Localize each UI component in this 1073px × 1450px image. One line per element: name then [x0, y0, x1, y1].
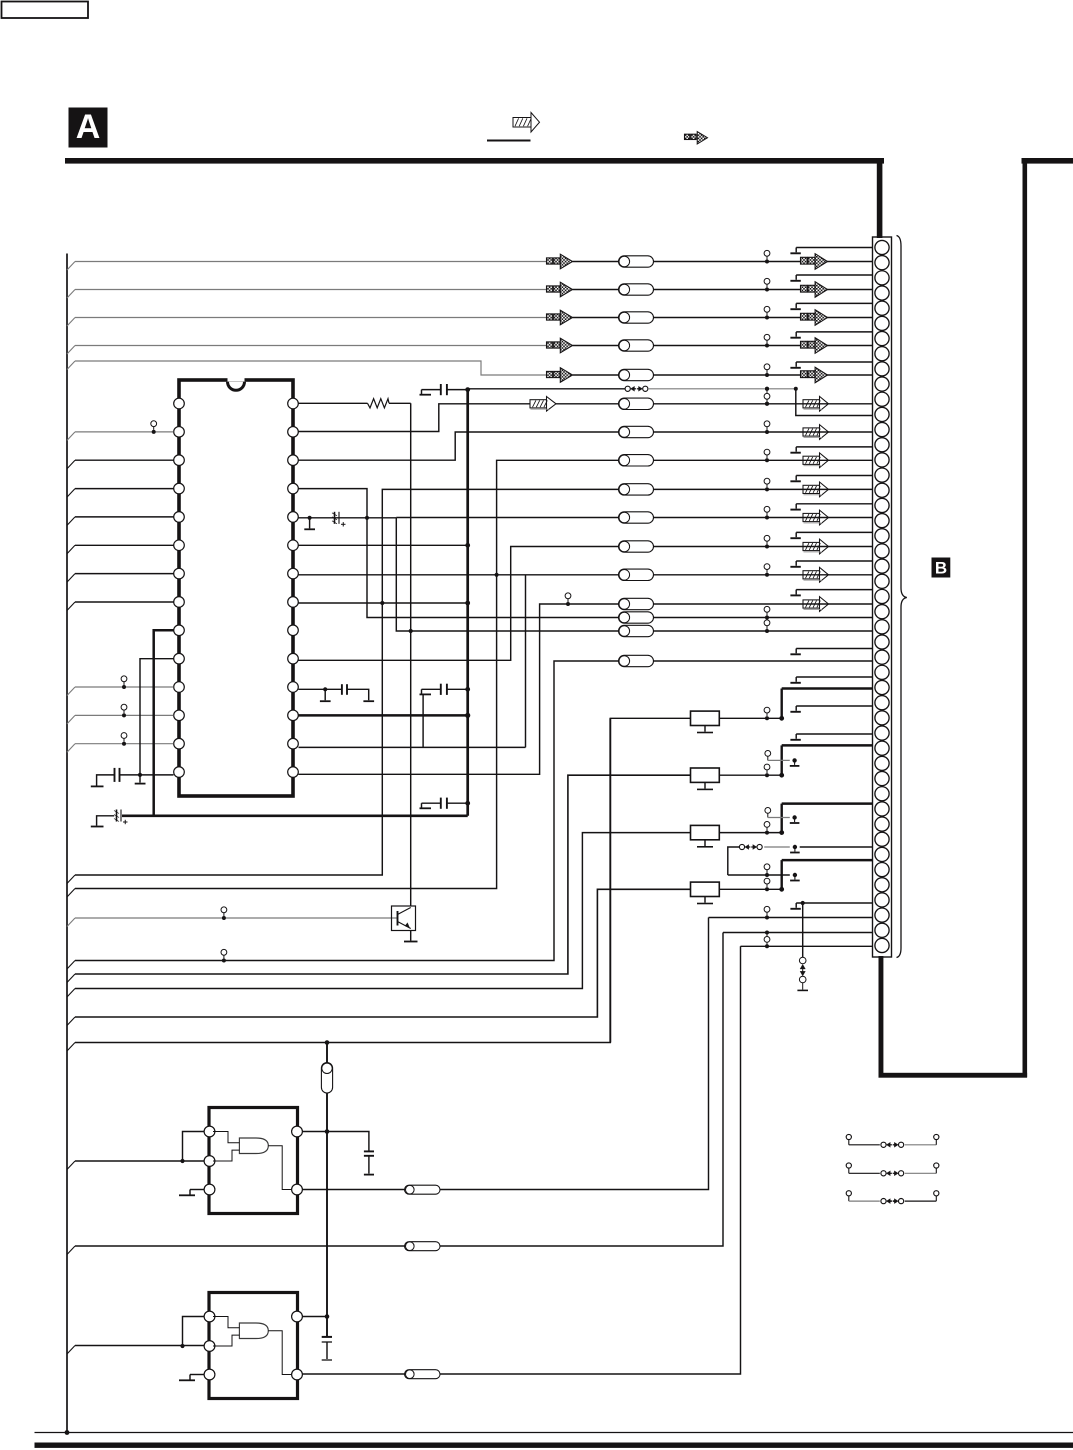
wire bus row 1345.5 to IC3 [75, 1345, 204, 1347]
connector pin 21 [875, 544, 889, 558]
bus entry stub [67, 1017, 75, 1026]
connector pin 37 [875, 787, 889, 801]
inline connector pair [121, 704, 127, 710]
wire bead to connector [654, 289, 873, 291]
IC1 left pin 11 [174, 682, 185, 693]
wire bus to IC1 pin6 [75, 544, 174, 546]
IC1 left pin 13 [174, 738, 185, 749]
hatched arrow (to connector) [803, 542, 820, 550]
IC1 left pin 10 [174, 653, 185, 664]
bus entry stub [67, 989, 75, 998]
thick section border: top horizontal A [65, 158, 884, 164]
vertical supply with bead to lower ICs [326, 1043, 328, 1063]
bus entry stub [67, 602, 75, 611]
ferrite bead [619, 484, 654, 495]
connector pin 4 [875, 286, 889, 300]
IC3 left pin 3 [204, 1369, 215, 1380]
ferrite bead [619, 625, 654, 636]
ferrite bead [619, 512, 654, 523]
wire IC1 pin25 over-down to bead row 617.5 [299, 489, 619, 618]
wire riser V511 bead row 546 from pin19 row [299, 547, 619, 661]
connector pin 42 [875, 862, 889, 876]
bus entry stub [67, 744, 75, 753]
connector pin 46 [875, 923, 889, 937]
connector pin 40 [875, 832, 889, 846]
wire resistor to vertical rail V411 [389, 402, 411, 404]
connector pin 1 [875, 240, 889, 254]
IC1 right pin 18 [288, 682, 299, 693]
wire IC3 output pin to supply junction [303, 1316, 328, 1318]
bus entry stub [67, 262, 75, 271]
resistor R on IC1 pin28 row [299, 402, 368, 404]
bus entry stub [67, 918, 75, 927]
checkered arrow (to connector) [801, 371, 808, 378]
checkered arrow (incoming) [547, 286, 553, 292]
wire IC1 pin9 to bold rail down-left [154, 630, 174, 816]
decoupling capacitor mid rail [420, 693, 432, 695]
connector pin 35 [875, 756, 889, 770]
bus entry stub [67, 460, 75, 469]
bus entry stub [67, 361, 75, 370]
bus entry stub [67, 318, 75, 327]
inline connector pair [764, 878, 770, 884]
wire bead to riser 740 [440, 946, 741, 1374]
wire bus to IC1 pin3 [75, 459, 174, 461]
wire pin24 net down to bead row 631 [396, 518, 618, 631]
wire riser from bus row [75, 775, 691, 974]
bus entry stub [67, 974, 75, 983]
IC1 right pin 26 [288, 455, 299, 466]
ground of electrolytic [97, 816, 115, 826]
connector pin 19 [875, 514, 889, 528]
connector pin 24 [875, 589, 889, 603]
filter network box [691, 882, 720, 896]
junction with bold feed [779, 887, 784, 892]
row 388.5 wire to junctions [648, 388, 796, 390]
IC3 feedback loop pin1-pin2 [183, 1317, 205, 1347]
IC1 left pin 14 [174, 767, 185, 778]
IC1 right pin 28 [288, 398, 299, 409]
connector pin 14 [875, 438, 889, 452]
connector pin 17 [875, 483, 889, 497]
IC1 left pin 12 [174, 710, 185, 721]
connector pin 9 [875, 362, 889, 376]
ground return of pin14 capacitor [97, 775, 115, 786]
IC1 left pin 1 [174, 398, 185, 409]
connector pin 18 [875, 498, 889, 512]
ferrite bead [619, 612, 654, 623]
connector pin 23 [875, 574, 889, 588]
stub land wire row 677 [796, 676, 872, 678]
connector pin 27 [875, 635, 889, 649]
section label A (black square) [69, 108, 108, 148]
IC3 internal element [239, 1323, 268, 1339]
connector pin 33 [875, 726, 889, 740]
wire bead 661 to connector [654, 660, 873, 662]
bus entry stub [67, 1346, 75, 1355]
inline connector pair on pin2 wire [151, 421, 157, 427]
connector pin 45 [875, 908, 889, 922]
inline connector pair [121, 676, 127, 682]
wire IC3 out row 1374 to small bead [303, 1373, 405, 1375]
wire IC1 pin21 row to bold rail [299, 602, 468, 604]
connector pin 3 [875, 271, 889, 285]
transistor Q1 box [392, 906, 416, 931]
test point chain above filter C [765, 808, 771, 814]
bus row 1246 with small bead [75, 1245, 405, 1247]
ferrite bead [619, 256, 654, 267]
bus entry stub [67, 517, 75, 526]
wire bead to connector [654, 261, 873, 263]
wire IC1 pin10 down to pin14 row [140, 659, 174, 775]
checkered arrow (to connector) [801, 313, 808, 320]
filter network box [691, 711, 720, 725]
bus entry stub [67, 489, 75, 498]
junction at IC2 supply pin [325, 1129, 330, 1134]
connector pin 39 [875, 817, 889, 831]
IC1 left pin 6 [174, 540, 185, 551]
polarised capacitor on pin24 row [308, 516, 312, 520]
bus entry stub [67, 290, 75, 299]
connector pin 12 [875, 407, 889, 421]
link pin16 row up to mid capacitor land [422, 694, 424, 747]
bus entry stub [67, 574, 75, 583]
wire IC2 output pin to supply junction [303, 1131, 328, 1133]
hatched arrow (to connector) [803, 513, 820, 521]
wire riser from bus row [75, 718, 691, 1042]
connector pin 29 [875, 665, 889, 679]
bus entry stub [67, 687, 75, 696]
wire bead to connector [654, 431, 873, 433]
wire bead to connector [654, 617, 873, 619]
wire bead to connector [654, 603, 873, 605]
stub land wire row 706 [796, 705, 872, 707]
stub land wire row 734 [796, 733, 872, 735]
wire arrow to bead [573, 289, 619, 291]
decoupling capacitor at top of rail [420, 394, 432, 396]
inline connector pair [764, 334, 770, 340]
small ferrite bead row 1189.5 [405, 1185, 441, 1194]
inline connector pair [764, 421, 770, 427]
bold decoupling rail V468 [466, 390, 469, 816]
checkered arrow (incoming) [547, 371, 553, 377]
page frame: empty title box top-left [2, 2, 89, 19]
wire filter box to connector pair [719, 832, 781, 834]
stub land wire pin5 [796, 302, 872, 304]
stub land wire row 532.4 [796, 531, 872, 533]
IC1 right pin 21 [288, 597, 299, 608]
ground stub of filter box [704, 726, 706, 732]
wire bus to IC1 pin7 [75, 573, 174, 575]
stub land wire pin3 [796, 274, 872, 276]
bus junction at bottom rail [65, 1430, 70, 1435]
ferrite bead [619, 398, 654, 409]
row 932.5 to connector [723, 932, 873, 934]
stub land wire pin9 [796, 361, 872, 363]
hatched arrow (incoming) [530, 400, 547, 408]
inline connector pair [764, 364, 770, 370]
bold riser 610 emphasis [609, 718, 611, 1042]
IC3 pin3 stub land [190, 1374, 204, 1376]
row 388.5 from rail with board mating [468, 388, 625, 390]
board-to-board mating symbol [625, 386, 630, 391]
stub land wire row 446.9 [796, 446, 872, 448]
IC3 left pin 2 [204, 1341, 215, 1352]
thick section border: bottom of B area [879, 1073, 1028, 1078]
row 946.3 to connector [741, 945, 873, 947]
bus entry stub [67, 961, 75, 970]
wire bus to IC1 pin4 [75, 488, 174, 490]
junction with bold feed [779, 773, 784, 778]
ferrite bead row 661 [619, 655, 654, 666]
thick section border: vertical drop to connector [877, 158, 883, 238]
connector pin 41 [875, 847, 889, 861]
bold wire to connector [782, 859, 873, 862]
junction V382 on pin21 row [380, 601, 384, 605]
junction pin24 row [365, 516, 369, 520]
checkered arrow (to connector) [801, 341, 808, 348]
inline connector pair on row 918 [221, 907, 227, 913]
hatched arrow (to connector) [803, 456, 820, 464]
IC3 right pin 6 [292, 1311, 303, 1322]
stub land wire row 475.5 [796, 475, 872, 477]
decoupling capacitor at IC2 [327, 1132, 369, 1152]
inline connector pair [764, 707, 770, 713]
IC1 left pin 8 [174, 597, 185, 608]
inline connector pair [764, 764, 770, 770]
wire bead to riser 708 [440, 918, 709, 1190]
checkered arrow (incoming) [547, 342, 553, 348]
inline connector pair [764, 535, 770, 541]
wire filter box to connector pair [719, 717, 781, 719]
wire bead to connector [654, 517, 873, 519]
stub land wire row 503.8 [796, 503, 872, 505]
wire arrow to bead [573, 261, 619, 263]
vertical ferrite bead [321, 1063, 332, 1094]
wire IC1 pin23 to bold rail [299, 544, 468, 546]
wire IC1 pin17 (bold) to rail [299, 714, 468, 717]
ferrite bead [619, 426, 654, 437]
bus wire row 1042.5 extension [609, 1042, 611, 1044]
IC2 pin3 stub land [190, 1189, 204, 1191]
hatched arrow (to connector) [803, 571, 820, 579]
capacitor on IC1 pin14 row [120, 774, 174, 776]
inline connector pair [764, 449, 770, 455]
IC1 right pin 25 [288, 483, 299, 494]
IC1 right pin 24 [288, 512, 299, 523]
checkered arrow (to connector) [801, 285, 808, 292]
left bus wire [66, 254, 68, 1433]
IC IC3 body [209, 1293, 298, 1399]
riser V525 from pin16 row to pin22 row [525, 575, 527, 748]
wire IC1 pin24 row with polarised cap [299, 517, 397, 519]
legend small checkered arrow [685, 134, 690, 139]
transistor emitter ground [410, 931, 412, 941]
wire IC1 pin15 row to riser V539 [299, 604, 619, 774]
connector pin 10 [875, 377, 889, 391]
capacitor with twin lands on IC1 pin18 row [299, 688, 342, 690]
IC1 left pin 3 [174, 455, 185, 466]
stub land wire row 589.6 [796, 589, 872, 591]
IC2 right pin 4 [292, 1184, 303, 1195]
IC2 internal element [239, 1138, 268, 1154]
ferrite bead [619, 284, 654, 295]
connector pin 44 [875, 893, 889, 907]
ferrite bead [619, 369, 654, 380]
IC1 right pin 15 [288, 767, 299, 778]
connector pin 7 [875, 331, 889, 345]
bus wire row 4 [75, 345, 547, 347]
IC3 right pin 4 [292, 1369, 303, 1380]
checkered arrow (to connector) [801, 257, 808, 264]
bus entry stub [67, 1043, 75, 1052]
riser bead row 661 from bus row 960.5 [75, 661, 619, 961]
vertical board mating below connector [802, 903, 804, 957]
ground stub of filter box [704, 782, 706, 788]
inline connector pair on row 604 (left) [565, 593, 571, 599]
bus entry stub [67, 889, 75, 898]
junction on input row [180, 1159, 184, 1163]
junction with V411 on row 631 [409, 629, 413, 633]
IC2 right pin 6 [292, 1126, 303, 1137]
thick section border: connector bottom drop [879, 956, 884, 1076]
bold vertical link [781, 804, 783, 833]
wire arrow to bead [573, 374, 619, 376]
ground stub of filter box [704, 840, 706, 846]
ferrite bead [619, 569, 654, 580]
bold supply row from electrolytic to right rail [122, 814, 468, 817]
junction pin21 row at bold rail [465, 601, 470, 606]
hatched arrow (to connector) [803, 600, 820, 608]
IC1 right pin 19 [288, 653, 299, 664]
IC2 feedback loop pin1-pin2 [183, 1132, 205, 1162]
wire bus to IC1 pin8 [75, 601, 174, 603]
inline connector pair [121, 733, 127, 739]
wire bead to connector [654, 488, 873, 490]
IC1 right pin 27 [288, 427, 299, 438]
wire bead to connector [654, 574, 873, 576]
IC1 left pin 5 [174, 512, 185, 523]
row 917.5 to connector [709, 917, 873, 919]
ferrite bead [619, 455, 654, 466]
wire bus to IC1 pin11 (gray) [75, 686, 174, 688]
hatched arrow (to connector) [803, 400, 820, 408]
connector pin 47 [875, 938, 889, 952]
bus entry stub [67, 1246, 75, 1255]
wire IC2 out row 1189.5 to small bead [303, 1189, 405, 1191]
bus entry stub [67, 346, 75, 355]
ferrite bead [619, 541, 654, 552]
IC1 right pin 20 [288, 625, 299, 636]
junction with bold feed [779, 716, 784, 721]
wire IC1 pin27 up-over to arrow row [299, 404, 531, 432]
IC1 left pin 4 [174, 483, 185, 494]
junction pin23 on bold rail [465, 543, 470, 548]
connector pin 13 [875, 422, 889, 436]
wire riser from bus row [75, 833, 691, 989]
junction with bold feed [779, 830, 784, 835]
connector pin 43 [875, 878, 889, 892]
wire bus row 918 to transistor base [75, 917, 398, 919]
wire IC1 pin22 row to bead row 574.8 [299, 574, 619, 576]
IC2 internal wiring [213, 1132, 239, 1143]
connector pin 36 [875, 771, 889, 785]
ground stub of filter box [704, 897, 706, 903]
electrolytic capacitor C into bold supply row 816 [116, 810, 118, 822]
connector pin 11 [875, 392, 889, 406]
IC2 left pin 3 [204, 1184, 215, 1195]
connector pin 2 [875, 256, 889, 270]
junction and drop to connector [794, 387, 798, 391]
IC IC1 pin-1 notch [228, 382, 245, 391]
transistor Q1 symbol [397, 911, 399, 926]
wire bus to IC1 pin12 (gray) [75, 714, 174, 716]
ferrite bead [619, 312, 654, 323]
IC2 left pin 1 [204, 1126, 215, 1137]
stub land below junction [139, 775, 141, 783]
row 875 wire to pair and test point [728, 874, 790, 876]
inline connector pair [764, 620, 770, 626]
wire pin24 net onward to bead row 517.5 [396, 517, 618, 519]
svg-text:A: A [76, 108, 101, 146]
bottom rail thin line [35, 1432, 1073, 1434]
wire filter box to connector pair [719, 888, 781, 890]
wire arrow to bead [573, 345, 619, 347]
inline connector pair [764, 506, 770, 512]
IC1 left pin 7 [174, 568, 185, 579]
connector pin 8 [875, 347, 889, 361]
stub land wire row 648.5 [796, 648, 872, 650]
inline connector pair [764, 306, 770, 312]
bus entry stub [67, 715, 75, 724]
bold wire to connector [782, 802, 873, 805]
bus entry stub [67, 1161, 75, 1170]
ferrite bead [619, 598, 654, 609]
jumper link row 2 [846, 1163, 851, 1168]
bottom thick bar [35, 1443, 1073, 1448]
stub land wire pin1 [796, 247, 872, 249]
IC1 right pin 16 [288, 738, 299, 749]
wire bead to connector [654, 630, 873, 632]
IC IC1 body (28-pin) [179, 380, 293, 796]
connector pin 16 [875, 468, 889, 482]
connector pin 34 [875, 741, 889, 755]
wire bead to connector [654, 345, 873, 347]
bus entry stub [67, 432, 75, 441]
connector pin 15 [875, 453, 889, 467]
bus wire row 3 [75, 317, 547, 319]
section label B (black square) [932, 558, 951, 578]
decoupling capacitor bottom rail [420, 807, 432, 809]
vertical net V411 (pin28 net down to transistor) [410, 403, 412, 906]
chain link rows 388-403 [765, 387, 769, 391]
hatched arrow (to connector) [803, 428, 820, 436]
small ferrite bead row 1374 [405, 1370, 441, 1379]
wire bead to connector [654, 403, 873, 405]
junction at capacitor row [138, 773, 142, 777]
chain link rows 932-946 [765, 931, 769, 935]
connector pin 26 [875, 620, 889, 634]
jumper link row 1 [846, 1134, 851, 1139]
inline connector pair [764, 822, 770, 828]
ferrite bead [619, 340, 654, 351]
IC3 internal wiring [213, 1317, 239, 1328]
IC1 left pin 2 [174, 427, 185, 438]
thick section border: vertical right B [1023, 158, 1028, 1077]
wire bus to IC1 pin13 (gray) [75, 743, 174, 745]
wire bead to connector [654, 546, 873, 548]
stub land wire pin7 [796, 331, 872, 333]
